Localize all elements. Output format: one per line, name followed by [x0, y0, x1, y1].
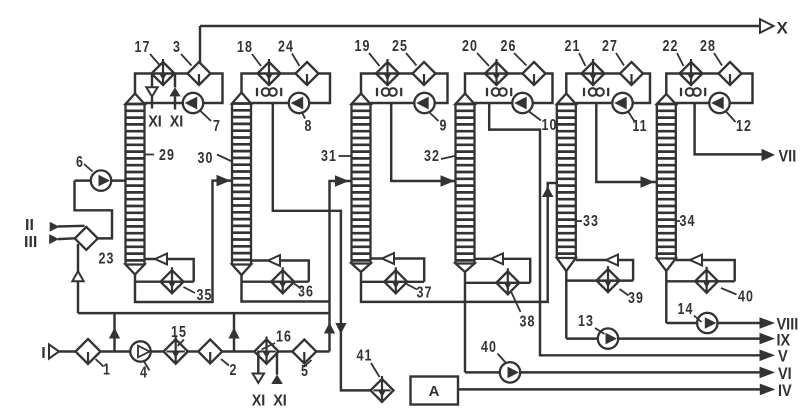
svg-text:28: 28 [700, 38, 716, 56]
leader 16 [262, 343, 276, 350]
wire: riser feeding column 31 [330, 181, 352, 352]
svg-text:II: II [25, 217, 34, 234]
column 31 [352, 94, 371, 273]
wire: reflux loop of column 34 (riser, upper line, right drop, lower line) [666, 74, 752, 104]
wire: column 30 bottoms [242, 275, 330, 302]
svg-text:10: 10 [541, 117, 557, 135]
arrow into column 29 [155, 254, 167, 265]
wire: reflux loop of column 31 (riser, upper line, right drop, lower line) [361, 74, 448, 104]
svg-text:30: 30 [197, 150, 213, 168]
svg-text:36: 36 [298, 283, 314, 301]
svg-text:7: 7 [213, 118, 220, 136]
leader 22 [677, 53, 684, 66]
leader 20 [477, 53, 489, 66]
arrow feed into column 31 [335, 175, 349, 187]
wire: inlet II [58, 225, 85, 228]
svg-text:9: 9 [440, 117, 447, 135]
separator 28 [719, 62, 742, 85]
separator 5 [292, 340, 316, 364]
wire: XI feed stub at diamond 16 [276, 352, 278, 375]
leader 19 [369, 53, 380, 66]
column 33 [557, 94, 576, 272]
leader 13 [595, 328, 605, 334]
svg-text:32: 32 [424, 148, 440, 166]
arrow into column 34 [690, 255, 702, 266]
wire: riser from bottom bus to mixer 23 [77, 244, 79, 313]
svg-text:X: X [777, 19, 789, 38]
svg-text:XI: XI [148, 113, 162, 131]
arrow feed into column 30 [217, 175, 231, 187]
wire: reflux loop of column 32 (riser, upper line, right drop, lower line) [465, 74, 553, 104]
svg-text:A: A [429, 383, 440, 400]
arrow inlet I (open) [49, 344, 59, 358]
heater 41 [371, 376, 394, 403]
wire: column 34 bottoms to outlet VIII [666, 322, 761, 324]
leader 37 [407, 284, 418, 290]
leader 41 [371, 363, 380, 377]
svg-text:16: 16 [276, 328, 292, 346]
wire: reflux loop of column 33 (riser, upper line, right drop, lower line) [566, 74, 650, 104]
instrument mark loop 34 [681, 88, 705, 96]
wire: row segment 15-2 [187, 350, 200, 352]
svg-text:39: 39 [628, 290, 644, 308]
leader 3 [181, 54, 192, 66]
wire: inlet III [58, 237, 75, 240]
arrow into column 32 [491, 253, 503, 264]
heat exchanger 17 [152, 59, 175, 86]
heater 38 [496, 268, 519, 295]
leader 4 [144, 362, 150, 371]
wire: column 32 bottoms down to pump 40 [464, 272, 466, 372]
svg-text:8: 8 [305, 118, 312, 136]
wire: XI vent stub at diamond 16 [257, 352, 259, 374]
svg-text:27: 27 [602, 38, 618, 56]
wire: column 32 distillate to outlet V [489, 103, 761, 355]
valve: XI outlet open triangle [146, 87, 157, 96]
instrument mark loop 32 [487, 88, 511, 96]
pump 11 [612, 93, 632, 113]
wire: reflux loop of column 30 (riser, upper line, right drop, lower line) [242, 74, 331, 104]
wire: row segment 2-16 [221, 350, 255, 352]
wire: column 33 bottoms down to pump 13 [565, 271, 567, 339]
wire: reboiler 35 line [135, 280, 194, 282]
arrow outlet VI [760, 367, 776, 379]
mixer 23 [75, 227, 98, 250]
leader 5 [304, 360, 312, 367]
svg-text:33: 33 [583, 213, 599, 231]
wire: reboiler 38 line [465, 282, 530, 284]
wire: reboiler 36 line [242, 280, 309, 282]
separator 24 [296, 62, 319, 85]
wire: reboiler 40 return into column 34 [676, 260, 735, 281]
wire: column 31 bottoms to column 33 feed [361, 183, 557, 302]
svg-text:29: 29 [159, 147, 175, 165]
wire: reboiler 35 return into column 29 [145, 259, 194, 282]
svg-text:15: 15 [171, 324, 187, 342]
filter 1 [76, 339, 101, 364]
wire: row segment 4-15 [151, 350, 165, 352]
arrow feed into column 33 [542, 187, 554, 198]
leader 11 [629, 112, 635, 122]
arrow up on riser to column 31 [324, 323, 335, 334]
leader 32 [441, 156, 455, 159]
svg-text:12: 12 [736, 118, 752, 136]
svg-text:VI: VI [778, 365, 792, 383]
wire: top header line to X [200, 25, 760, 28]
leader 1 [96, 359, 104, 367]
leader 26 [514, 53, 527, 66]
arrow feed into column 32 [441, 175, 455, 187]
svg-text:XI: XI [273, 392, 287, 410]
svg-text:23: 23 [98, 250, 114, 268]
wire: column 30 distillate to unit A line [273, 103, 371, 390]
arrow outlet IV [760, 384, 776, 396]
svg-text:40: 40 [738, 288, 754, 306]
instrument mark loop 31 [377, 88, 401, 96]
svg-text:20: 20 [462, 38, 478, 56]
column 34 [657, 94, 676, 271]
svg-text:25: 25 [392, 38, 408, 56]
leader 34 [677, 220, 681, 222]
pump 10 [512, 93, 532, 113]
wire: row segment 1-4 [99, 350, 130, 352]
heater 36 [271, 267, 294, 294]
svg-text:XI: XI [252, 392, 266, 410]
arrow up riser 1 [109, 328, 120, 339]
leader 39 [620, 289, 629, 296]
svg-text:40: 40 [481, 339, 497, 357]
arrow outlet VII [762, 149, 776, 161]
svg-text:26: 26 [500, 38, 516, 56]
svg-text:24: 24 [278, 38, 294, 56]
leader 6 [84, 164, 93, 172]
svg-text:19: 19 [354, 38, 370, 56]
leader 27 [616, 53, 624, 66]
heater 16 [254, 337, 278, 365]
separator 26 [523, 62, 546, 85]
svg-text:21: 21 [564, 38, 580, 56]
svg-text:31: 31 [321, 148, 337, 166]
svg-text:1: 1 [103, 361, 110, 379]
wire: XI vent stub at column 29 [151, 74, 153, 88]
separator 27 [620, 62, 643, 85]
leader 33 [577, 220, 583, 222]
heat exchanger 21 [582, 59, 605, 86]
arrow outlet VIII [760, 317, 776, 329]
leader 25 [406, 53, 417, 66]
wire: reboiler 38 return into column 32 [475, 259, 531, 283]
leader 10 [529, 112, 541, 121]
wire: bottom bus [78, 312, 330, 314]
svg-text:17: 17 [134, 39, 150, 57]
leader 40 pump [498, 354, 507, 364]
svg-text:37: 37 [416, 284, 432, 302]
pump 9 [414, 93, 434, 113]
wire: unit A to outlet IV [458, 388, 761, 390]
wire: column 33 bottoms to outlet IX [566, 337, 761, 339]
heater 40 [695, 267, 718, 294]
wire: riser from diamond 1 to bus [113, 313, 115, 351]
leader 2 [221, 359, 229, 366]
heater 15 [164, 337, 188, 365]
leader 36 [294, 284, 301, 289]
column 32 [456, 94, 475, 273]
separator 2 [198, 340, 222, 364]
wire: column 32 bottoms to outlet VI [465, 371, 761, 373]
svg-text:6: 6 [76, 154, 83, 172]
arrow inlet II [50, 222, 60, 232]
wire: riser after diamond 2 to bus [233, 313, 235, 351]
svg-text:IX: IX [777, 332, 791, 350]
wire: reboiler 37 return into column 31 [371, 259, 425, 282]
leader 7 [201, 111, 212, 121]
svg-text:V: V [778, 348, 788, 366]
wire: reboiler 39 return into column 33 [576, 260, 633, 281]
leader 21 [579, 53, 586, 66]
wire: column 29 overhead to top header [199, 26, 201, 63]
svg-text:38: 38 [519, 313, 535, 331]
column 29 [126, 94, 145, 275]
wire: row segment 5 to riser V1 [315, 350, 329, 352]
instrument mark loop 30 [257, 88, 281, 96]
wire: feed into column 29 from pump 6 [75, 179, 126, 181]
wire: column 31 distillate to column 32 feed [391, 103, 455, 181]
leader 15 [178, 340, 185, 347]
svg-text:2: 2 [230, 362, 237, 380]
leader 8 [302, 112, 306, 119]
heat exchanger 20 [485, 59, 508, 86]
wire: column 33 distillate to column 34 feed [596, 103, 657, 182]
valve: XI outlet open triangle (bottom) [253, 374, 264, 383]
wire: reflux loop of column 29 (riser, upper line, right drop, lower line) [135, 74, 223, 104]
leader 9 [429, 112, 439, 121]
leader 29 [145, 154, 155, 156]
heat exchanger 18 [258, 59, 281, 86]
heater 35 [161, 267, 184, 294]
leader 40 heater [721, 288, 737, 295]
svg-text:XI: XI [170, 113, 184, 131]
column 30 [232, 93, 251, 276]
leader 12 [726, 112, 736, 123]
leader 17 [150, 54, 161, 66]
svg-text:35: 35 [196, 287, 212, 305]
heater 37 [384, 267, 407, 294]
pump 12 [709, 93, 729, 113]
separator 25 [413, 62, 436, 85]
heater 39 [597, 266, 620, 293]
wire: inlet I line [59, 350, 78, 352]
svg-text:3: 3 [173, 39, 180, 57]
wire: column 34 bottoms down to pump 14 [665, 271, 667, 323]
wire: column 34 distillate to outlet VII [695, 103, 762, 154]
leader 31 [339, 155, 352, 157]
svg-text:34: 34 [679, 213, 695, 231]
leader 14 [694, 316, 702, 323]
pump 4 [130, 341, 150, 361]
wire: row segment 16-5 [278, 350, 294, 352]
arrow down to unit A [335, 323, 346, 334]
svg-text:14: 14 [677, 301, 693, 319]
arrow outlet V [760, 350, 776, 362]
arrow into column 30 [268, 255, 280, 266]
svg-text:IV: IV [778, 382, 792, 400]
svg-text:41: 41 [356, 347, 372, 365]
leader 18 [252, 54, 261, 66]
heat exchanger 19 [376, 59, 399, 86]
svg-text:22: 22 [662, 38, 678, 56]
wire: pump 6 suction S-path [75, 181, 113, 239]
wire: XI feed stub at column 29 [174, 74, 176, 88]
leader 24 [292, 54, 300, 67]
valve: XI inlet filled triangle (bottom) [271, 375, 283, 385]
svg-text:I: I [41, 345, 45, 362]
svg-text:13: 13 [578, 313, 594, 331]
arrow outlet IX [760, 333, 776, 345]
instrument mark loop 33 [584, 88, 608, 96]
svg-text:4: 4 [140, 364, 147, 382]
pump 8 [289, 93, 309, 113]
pump 13 [598, 328, 618, 348]
pump 40 [500, 362, 520, 382]
svg-text:18: 18 [237, 39, 253, 57]
wire: reboiler 36 return into column 30 [251, 261, 309, 282]
arrow inlet III [49, 234, 59, 244]
wire: column 29 bottoms [135, 181, 232, 302]
arrow up on riser to 23 (open) [72, 271, 83, 281]
wire: reboiler 39 line [566, 279, 633, 281]
svg-text:VIII: VIII [777, 316, 799, 334]
svg-text:VII: VII [779, 148, 797, 166]
arrow into column 31 [382, 253, 394, 264]
pump 14 [697, 313, 717, 333]
heat exchanger 22 [680, 59, 703, 86]
pump 6 [91, 170, 111, 190]
wire: reboiler 37 line [361, 281, 424, 283]
arrow outlet X (open) [760, 19, 774, 33]
leader 38 [511, 292, 521, 313]
pump 7 [183, 93, 203, 113]
arrow up riser 2 [228, 328, 239, 339]
leader 35 [184, 287, 196, 293]
unit A box [411, 377, 459, 405]
valve: XI inlet filled triangle [169, 87, 180, 96]
wire: reboiler 40 line [666, 280, 734, 282]
arrow into column 33 [606, 255, 618, 266]
separator 3 [188, 62, 211, 85]
svg-text:III: III [24, 234, 37, 251]
leader 30 [217, 155, 231, 162]
arrow feed into column 34 [641, 176, 655, 188]
leader 28 [714, 53, 722, 66]
